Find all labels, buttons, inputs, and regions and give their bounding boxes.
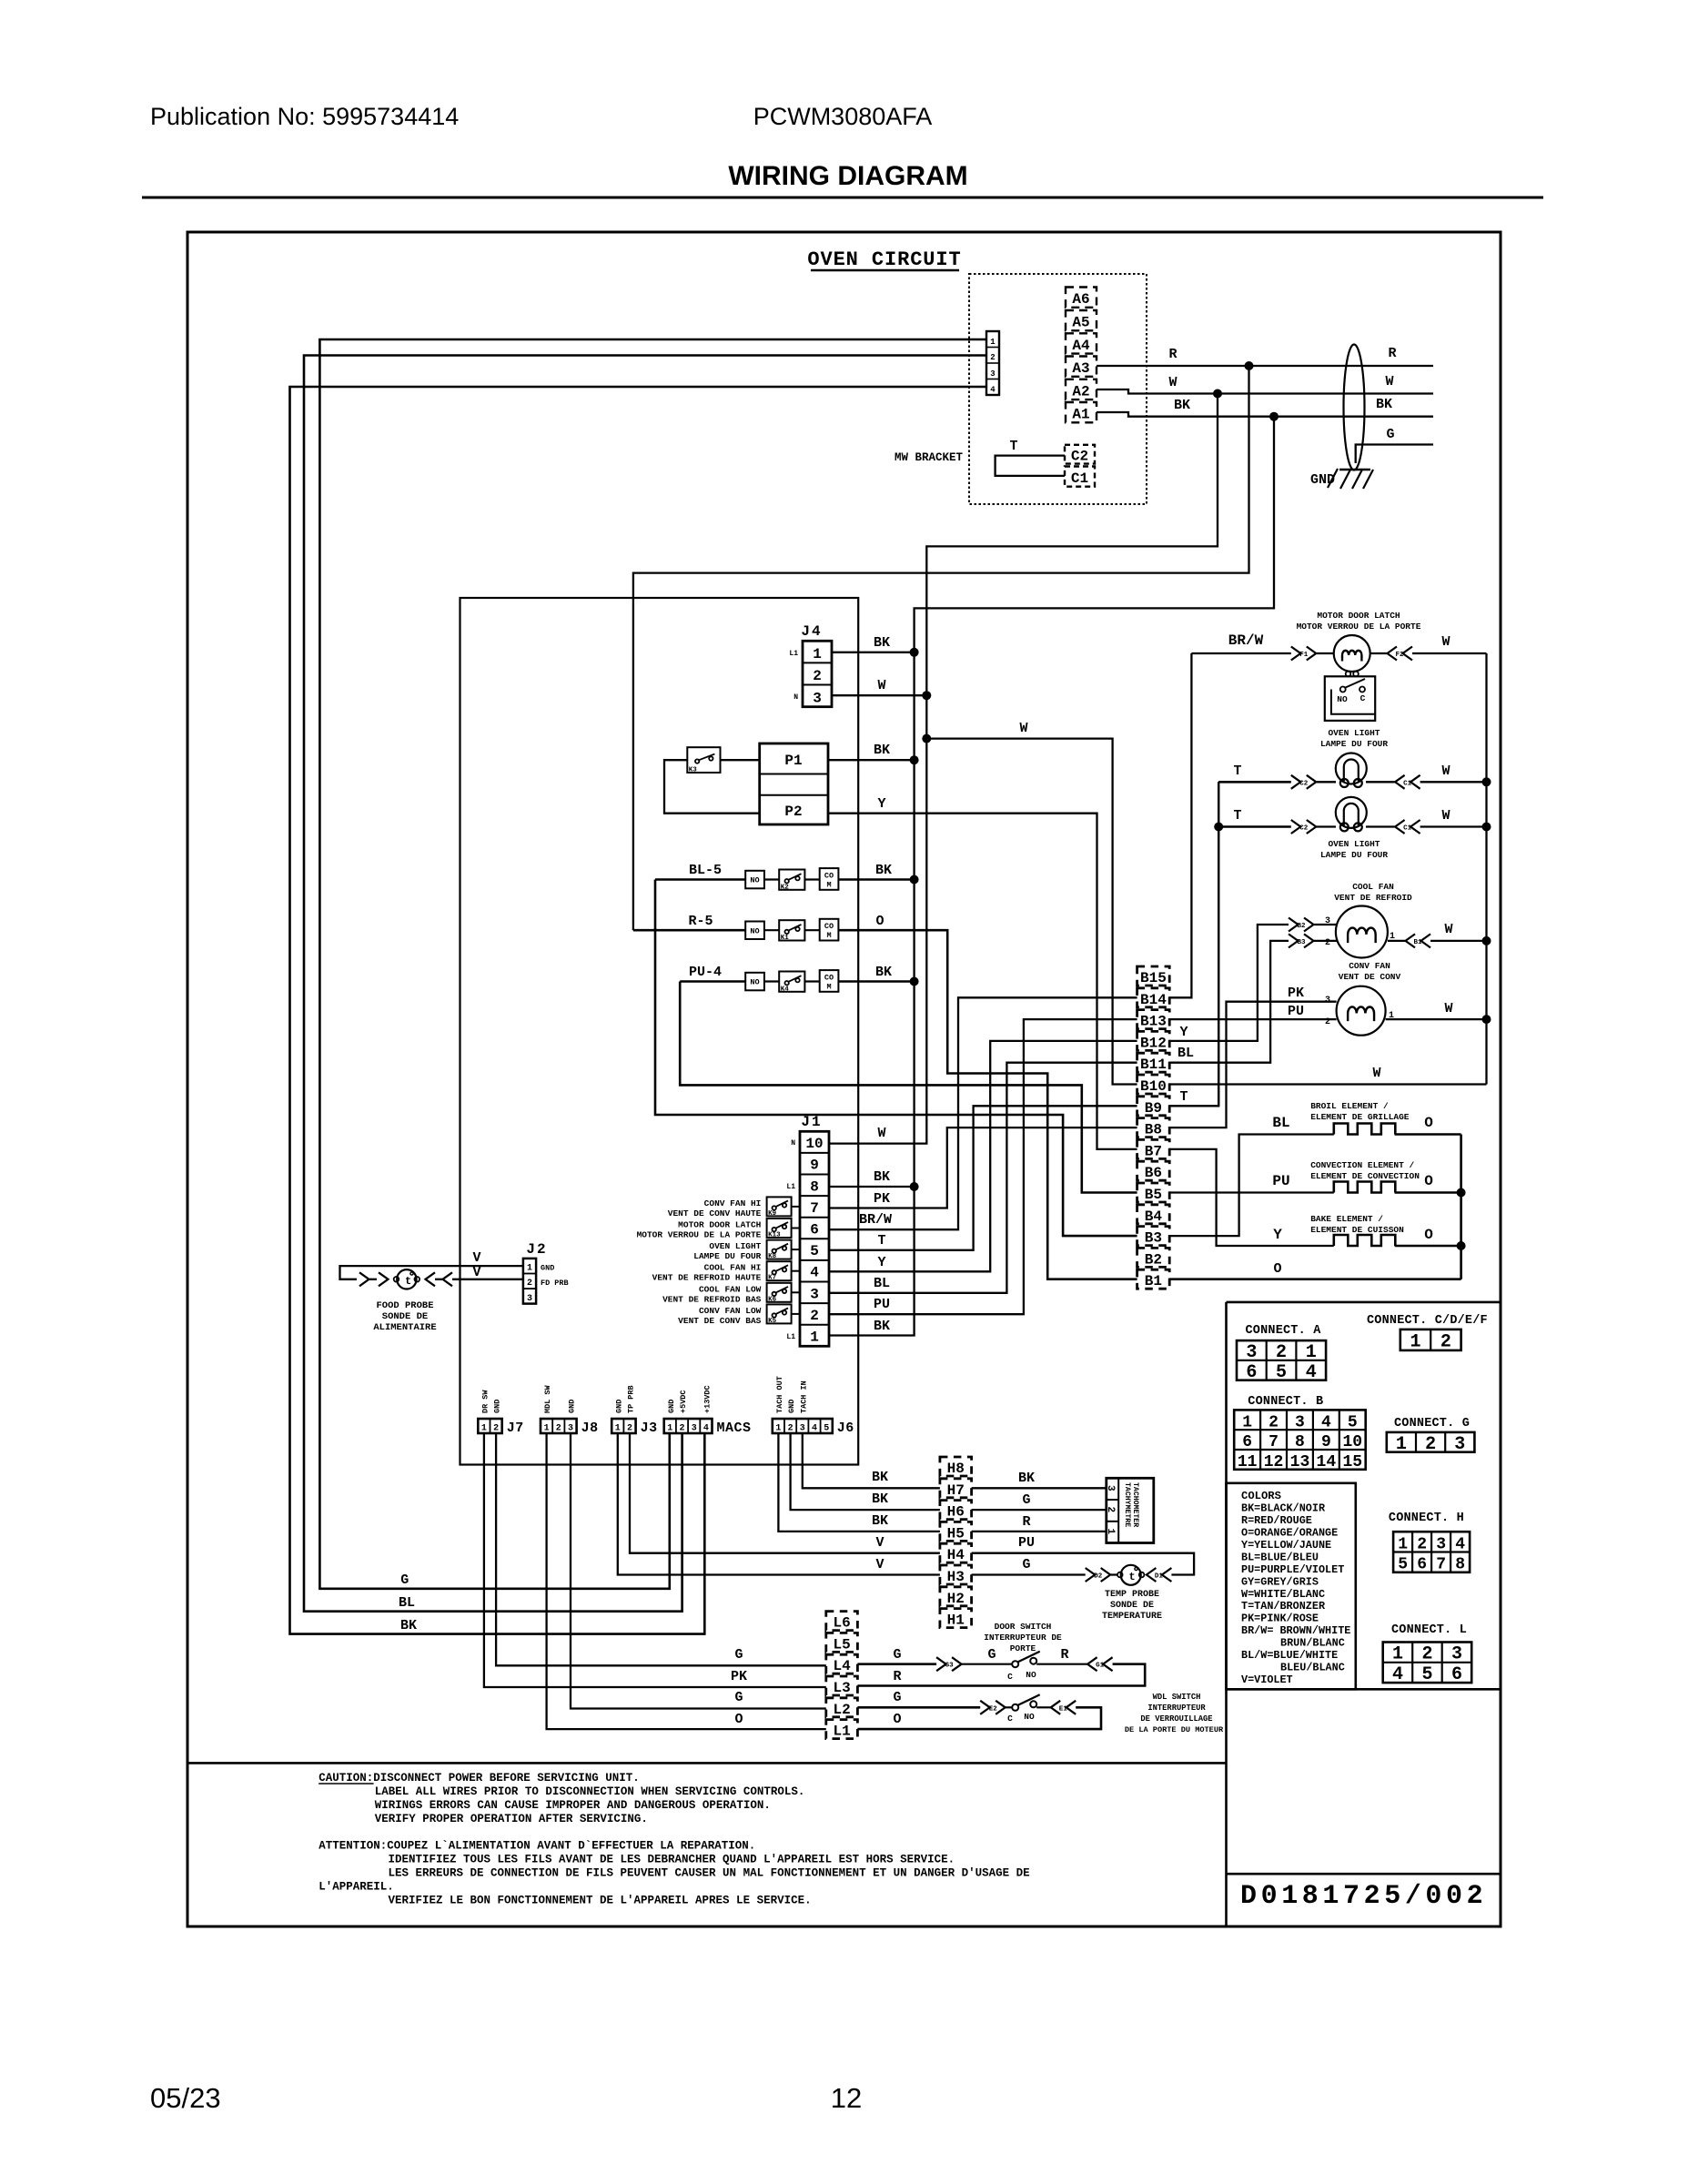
wire J3-2 V to H4 <box>630 1433 940 1553</box>
connector pin L1 <box>826 1720 858 1739</box>
connector pin H6 <box>940 1501 972 1520</box>
connector pin A5 <box>1066 310 1097 330</box>
svg-text:D0181725/002: D0181725/002 <box>1240 1881 1487 1912</box>
legend divider D-number <box>1227 1873 1501 1876</box>
wire V J2-2 to food probe <box>452 1279 523 1280</box>
wire T drop to oven light 2 <box>1218 782 1219 1106</box>
svg-text:M: M <box>826 982 831 991</box>
connector J3 <box>612 1419 635 1433</box>
svg-text:R: R <box>1060 1647 1068 1663</box>
svg-text:WDL SWITCH: WDL SWITCH <box>1153 1693 1201 1702</box>
svg-text:CONNECT. H: CONNECT. H <box>1389 1512 1464 1525</box>
wire K3 loop to P2 <box>664 760 760 814</box>
junction T at oven light 2 <box>1214 823 1223 832</box>
svg-text:VENT DE CONV BAS: VENT DE CONV BAS <box>678 1316 762 1326</box>
connector pin H2 <box>940 1587 972 1606</box>
svg-text:W: W <box>1385 374 1393 389</box>
svg-text:BK: BK <box>875 863 892 878</box>
legend divider colors bottom <box>1227 1688 1501 1691</box>
motor door latch motor <box>1334 635 1370 672</box>
svg-text:B5: B5 <box>1145 1187 1162 1203</box>
wire J6-3 BK to H7 <box>803 1433 940 1488</box>
svg-text:BL: BL <box>1178 1046 1194 1061</box>
connector pin B2 <box>1137 1248 1170 1267</box>
svg-text:1: 1 <box>527 1264 532 1274</box>
svg-text:PU: PU <box>874 1297 890 1312</box>
connector pin H4 <box>940 1543 972 1562</box>
svg-text:H5: H5 <box>947 1525 965 1542</box>
wire loop to L1 <box>857 1707 1101 1729</box>
svg-text:K3: K3 <box>689 767 698 774</box>
svg-text:4: 4 <box>810 1265 819 1281</box>
svg-text:COOL FAN HI: COOL FAN HI <box>704 1263 762 1273</box>
svg-text:BK: BK <box>874 1169 890 1185</box>
svg-text:B10: B10 <box>1140 1078 1167 1095</box>
svg-text:OVEN CIRCUIT: OVEN CIRCUIT <box>807 248 961 271</box>
svg-text:5: 5 <box>1276 1362 1287 1383</box>
connector pin B9 <box>1137 1097 1170 1116</box>
svg-text:B11: B11 <box>1140 1057 1167 1073</box>
svg-text:2: 2 <box>493 1424 499 1434</box>
svg-text:N: N <box>791 1139 795 1148</box>
svg-text:CO: CO <box>824 973 834 982</box>
svg-text:G: G <box>893 1647 901 1663</box>
svg-text:BK: BK <box>874 1319 890 1334</box>
svg-text:B1: B1 <box>1145 1273 1162 1289</box>
motor terminals <box>1346 672 1351 677</box>
wire B11 BL to cool fan pin2 <box>1169 941 1289 1063</box>
switch K8 at J1-5 <box>767 1240 792 1259</box>
svg-text:FOOD PROBE: FOOD PROBE <box>376 1300 433 1311</box>
arrow C2 light1 <box>1291 775 1301 789</box>
svg-text:3: 3 <box>1436 1535 1446 1553</box>
arrow C2 light2 <box>1291 820 1301 834</box>
connector pin A1 <box>1066 402 1097 422</box>
svg-text:J4: J4 <box>801 623 822 640</box>
svg-text:A1: A1 <box>1072 407 1089 423</box>
switch K5 at J1-2 <box>767 1304 792 1323</box>
svg-text:2: 2 <box>627 1424 632 1434</box>
svg-text:DE VERROUILLAGE: DE VERROUILLAGE <box>1140 1714 1212 1724</box>
door latch switch NO C <box>1325 676 1375 721</box>
svg-text:O: O <box>875 914 884 929</box>
svg-text:B12: B12 <box>1140 1035 1167 1051</box>
svg-text:L2: L2 <box>833 1702 850 1718</box>
wire relay K2 output BK <box>838 878 914 881</box>
svg-text:O: O <box>1273 1261 1281 1277</box>
svg-text:SONDE DE: SONDE DE <box>1110 1601 1154 1611</box>
convection element <box>1334 1182 1396 1193</box>
wire P2 Y output to B7 <box>828 814 1137 1149</box>
arrow F1 <box>1291 647 1301 661</box>
svg-text:J7: J7 <box>507 1421 524 1436</box>
svg-text:2: 2 <box>1325 938 1330 948</box>
connector pin A2 <box>1066 379 1097 399</box>
svg-text:FD PRB: FD PRB <box>541 1279 569 1288</box>
svg-text:Y: Y <box>1273 1227 1282 1243</box>
wire G from cable bundle <box>1356 445 1433 464</box>
svg-text:C: C <box>1007 1714 1013 1724</box>
svg-text:5: 5 <box>1398 1556 1408 1574</box>
wire B3 BL to broil element <box>1169 1135 1334 1237</box>
svg-text:2: 2 <box>1421 1644 1432 1665</box>
svg-text:PU: PU <box>1018 1535 1035 1551</box>
arrow B1 <box>1421 934 1431 947</box>
svg-text:11: 11 <box>1238 1453 1258 1471</box>
svg-text:BK: BK <box>872 1491 888 1507</box>
wire PU-4 route to B5 <box>680 982 1137 1193</box>
temp probe sensor <box>1117 1572 1123 1578</box>
bake element <box>1334 1235 1396 1246</box>
svg-text:7: 7 <box>1436 1556 1446 1574</box>
svg-text:L5: L5 <box>833 1636 850 1653</box>
svg-text:TEMPERATURE: TEMPERATURE <box>1102 1612 1162 1622</box>
svg-text:CONNECT. L: CONNECT. L <box>1391 1623 1467 1637</box>
svg-text:J3: J3 <box>641 1421 658 1436</box>
svg-text:BR/W: BR/W <box>1228 632 1264 649</box>
svg-text:10: 10 <box>1342 1433 1362 1451</box>
svg-text:A4: A4 <box>1072 338 1090 354</box>
svg-text:TACH IN: TACH IN <box>799 1380 808 1413</box>
connector MACS <box>664 1419 713 1433</box>
connector pin H1 <box>940 1609 972 1628</box>
junction W oven light 1 <box>1482 777 1491 786</box>
connector pin B3 <box>1137 1227 1170 1246</box>
svg-text:T: T <box>1233 763 1241 779</box>
connector J4 <box>803 641 832 706</box>
svg-text:1: 1 <box>1306 1342 1317 1363</box>
wire T to oven light 1 <box>1218 781 1291 784</box>
svg-text:E1: E1 <box>1059 1705 1068 1713</box>
wire H4 PU to temp probe <box>972 1553 1195 1575</box>
svg-text:2: 2 <box>1417 1535 1427 1553</box>
svg-text:TP PRB: TP PRB <box>627 1385 636 1413</box>
svg-text:T: T <box>1233 808 1241 824</box>
svg-text:PU=PURPLE/VIOLET: PU=PURPLE/VIOLET <box>1241 1563 1344 1576</box>
wire V J2-1 to food probe <box>340 1266 523 1279</box>
svg-text:4: 4 <box>1321 1413 1331 1431</box>
connector pin H8 <box>940 1457 972 1476</box>
svg-text:P2: P2 <box>784 804 802 820</box>
svg-text:Y: Y <box>877 1255 885 1270</box>
wire BK route to BK bus <box>829 417 1274 1336</box>
svg-text:W: W <box>1168 375 1177 390</box>
wire J1-4 Y to B12 <box>829 1041 1137 1271</box>
right W bus vertical <box>1485 653 1487 1085</box>
relay COM terminal <box>820 970 839 992</box>
svg-text:G3: G3 <box>945 1663 955 1670</box>
connector pin B15 <box>1137 966 1170 986</box>
wire J1-7 PK to B8 <box>829 1127 1137 1208</box>
svg-text:2: 2 <box>1425 1434 1436 1455</box>
legend panel border <box>1227 1301 1501 1304</box>
svg-text:1: 1 <box>544 1424 550 1434</box>
svg-text:MOTOR VERROU DE LA PORTE: MOTOR VERROU DE LA PORTE <box>1297 622 1421 632</box>
svg-text:CONNECT. A: CONNECT. A <box>1246 1324 1322 1338</box>
svg-text:BRUN/BLANC: BRUN/BLANC <box>1280 1637 1345 1650</box>
svg-text:4: 4 <box>1306 1362 1317 1383</box>
wire L4 G to door switch <box>857 1663 936 1665</box>
svg-text:H2: H2 <box>947 1591 965 1607</box>
svg-text:COLORS: COLORS <box>1241 1490 1281 1502</box>
wire H3 G to temp probe <box>972 1573 1086 1575</box>
svg-text:B3: B3 <box>1145 1230 1162 1247</box>
svg-text:J6: J6 <box>837 1421 854 1436</box>
svg-text:PORTE: PORTE <box>1010 1643 1036 1653</box>
wire BK from A1 <box>1097 412 1433 417</box>
wire B14 to motor door latch BR/W <box>1169 653 1191 997</box>
svg-text:BK: BK <box>1018 1471 1035 1486</box>
svg-text:H6: H6 <box>947 1504 965 1521</box>
wire R loop to L3 <box>857 1664 1145 1686</box>
svg-text:B4: B4 <box>1145 1208 1163 1225</box>
svg-text:W=WHITE/BLANC: W=WHITE/BLANC <box>1241 1588 1325 1601</box>
svg-text:G: G <box>893 1690 901 1705</box>
wire BR/W to motor F1 <box>1191 652 1290 654</box>
junction BK bus relay K4 <box>910 977 919 986</box>
svg-text:CONNECT. G: CONNECT. G <box>1394 1417 1470 1431</box>
wire B13 PU to conv fan pin2 <box>1169 1018 1336 1020</box>
svg-text:Publication No: 5995734414: Publication No: 5995734414 <box>150 103 459 130</box>
svg-text:2: 2 <box>788 1424 793 1434</box>
arrow E2 <box>980 1701 990 1714</box>
svg-text:3: 3 <box>1325 916 1330 926</box>
svg-text:BK: BK <box>875 965 892 980</box>
svg-text:TEMP PROBE: TEMP PROBE <box>1105 1590 1159 1600</box>
svg-text:O: O <box>893 1712 901 1727</box>
svg-text:V=VIOLET: V=VIOLET <box>1241 1673 1293 1686</box>
svg-text:R: R <box>1168 347 1177 362</box>
junction W bus J4-3 <box>922 691 931 700</box>
arrow B2 <box>1289 918 1299 932</box>
svg-text:BL: BL <box>874 1276 890 1291</box>
svg-text:7: 7 <box>810 1200 819 1217</box>
arrow D2 <box>1086 1568 1096 1582</box>
svg-text:J2: J2 <box>526 1241 547 1258</box>
svg-text:2: 2 <box>990 353 995 362</box>
svg-text:CONNECT. B: CONNECT. B <box>1248 1395 1323 1409</box>
junction W bus <box>1213 389 1222 399</box>
wire W branch to B10 <box>926 739 1137 1085</box>
connector pin L5 <box>826 1633 858 1652</box>
svg-text:5: 5 <box>824 1424 829 1434</box>
svg-text:PCWM3080AFA: PCWM3080AFA <box>753 103 933 130</box>
svg-text:LABEL ALL WIRES PRIOR TO DISCO: LABEL ALL WIRES PRIOR TO DISCONNECTION W… <box>375 1785 805 1798</box>
connector pin C1 <box>1065 467 1095 487</box>
svg-text:K9: K9 <box>768 1210 777 1218</box>
wire L2 G to WDL switch <box>857 1706 980 1709</box>
svg-text:C2: C2 <box>1299 825 1309 833</box>
svg-text:8: 8 <box>1455 1556 1465 1574</box>
svg-text:K1: K1 <box>781 935 790 942</box>
wire BL from strip pin2 to MACS-2 <box>304 356 986 1612</box>
svg-text:W: W <box>1019 721 1027 736</box>
svg-text:OVEN LIGHT: OVEN LIGHT <box>1328 839 1380 849</box>
svg-text:K8: K8 <box>768 1253 777 1260</box>
connector pin A3 <box>1066 357 1097 377</box>
svg-text:2: 2 <box>1269 1413 1279 1431</box>
svg-text:NO: NO <box>750 978 759 987</box>
svg-text:COOL FAN: COOL FAN <box>1352 882 1394 892</box>
title rule <box>142 197 1543 199</box>
connector pin B8 <box>1137 1118 1170 1137</box>
relay switch K1 <box>779 920 804 940</box>
svg-text:W: W <box>1372 1066 1380 1081</box>
svg-text:BL/W=BLUE/WHITE: BL/W=BLUE/WHITE <box>1241 1649 1338 1662</box>
connector pin B7 <box>1137 1139 1170 1158</box>
svg-text:GND: GND <box>493 1400 502 1413</box>
junction convection return <box>1457 1188 1466 1198</box>
svg-text:1: 1 <box>615 1424 621 1434</box>
svg-text:H4: H4 <box>947 1547 965 1563</box>
svg-text:2: 2 <box>1105 1507 1116 1513</box>
svg-text:ALIMENTAIRE: ALIMENTAIRE <box>373 1322 436 1333</box>
control board outline <box>460 598 859 1465</box>
svg-text:3: 3 <box>692 1424 697 1434</box>
svg-text:3: 3 <box>800 1424 805 1434</box>
svg-text:F2: F2 <box>1395 652 1404 659</box>
switch K7 at J1-4 <box>767 1261 792 1280</box>
svg-text:1: 1 <box>1105 1529 1116 1535</box>
svg-text:1: 1 <box>1410 1331 1420 1352</box>
svg-text:PU: PU <box>1272 1173 1289 1189</box>
svg-text:ELEMENT DE GRILLAGE: ELEMENT DE GRILLAGE <box>1310 1112 1410 1122</box>
svg-text:GND: GND <box>568 1400 577 1413</box>
svg-text:8: 8 <box>810 1178 819 1195</box>
svg-text:BK: BK <box>1376 397 1392 412</box>
legend COLORS box <box>1227 1483 1356 1690</box>
wire J7-2 G to L4 <box>496 1433 826 1665</box>
svg-text:O: O <box>1424 1173 1433 1189</box>
svg-text:GND: GND <box>541 1264 554 1273</box>
svg-text:TACHYMETRE: TACHYMETRE <box>1123 1482 1131 1527</box>
relay switch K2 <box>779 870 804 890</box>
svg-text:R=RED/ROUGE: R=RED/ROUGE <box>1241 1514 1312 1527</box>
svg-text:2: 2 <box>679 1424 684 1434</box>
svg-text:M: M <box>826 931 831 940</box>
svg-text:LAMPE DU FOUR: LAMPE DU FOUR <box>693 1251 761 1261</box>
svg-text:L1: L1 <box>786 1183 795 1191</box>
svg-text:1: 1 <box>1398 1535 1408 1553</box>
switch K9 at J1-7 <box>767 1197 792 1216</box>
svg-text:5: 5 <box>810 1243 819 1259</box>
svg-text:2: 2 <box>1325 1017 1330 1027</box>
svg-text:COOL FAN LOW: COOL FAN LOW <box>699 1284 762 1294</box>
svg-text:MDL SW: MDL SW <box>543 1384 552 1413</box>
svg-text:O: O <box>1424 1115 1433 1131</box>
svg-text:MOTOR VERROU DE LA PORTE: MOTOR VERROU DE LA PORTE <box>637 1230 762 1240</box>
wire R from A3 <box>1097 365 1433 367</box>
svg-text:T=TAN/BRONZER: T=TAN/BRONZER <box>1241 1600 1326 1613</box>
svg-text:E2: E2 <box>989 1705 998 1713</box>
svg-text:NO: NO <box>1024 1712 1035 1722</box>
svg-text:3: 3 <box>810 1286 819 1302</box>
connector pin C2 <box>1065 445 1095 464</box>
svg-text:14: 14 <box>1317 1453 1337 1471</box>
tachometer <box>1107 1478 1154 1542</box>
switch K3 <box>687 747 720 773</box>
wire relay K4 output BK <box>838 980 914 983</box>
svg-text:VENT DE REFROID: VENT DE REFROID <box>1334 893 1412 903</box>
wire J1-6 BR/W to B14 <box>829 997 1137 1229</box>
svg-text:PK=PINK/ROSE: PK=PINK/ROSE <box>1241 1613 1319 1625</box>
svg-text:BAKE ELEMENT /: BAKE ELEMENT / <box>1310 1214 1383 1224</box>
connector pin B6 <box>1137 1161 1170 1180</box>
svg-text:CAUTION:DISCONNECT POWER BEFOR: CAUTION:DISCONNECT POWER BEFORE SERVICIN… <box>318 1772 640 1785</box>
svg-text:8: 8 <box>1295 1433 1305 1451</box>
svg-text:6: 6 <box>1451 1664 1462 1685</box>
svg-text:B9: B9 <box>1145 1100 1162 1117</box>
arrow E1 <box>1066 1701 1076 1714</box>
svg-text:L3: L3 <box>833 1680 850 1696</box>
wire W route to W bus <box>829 394 1218 1144</box>
svg-text:CONV FAN: CONV FAN <box>1349 961 1390 971</box>
cable bundle oval <box>1344 345 1365 470</box>
svg-text:4: 4 <box>703 1424 709 1434</box>
svg-text:G: G <box>1022 1557 1030 1572</box>
switch K6 at J1-3 <box>767 1283 792 1302</box>
svg-text:3: 3 <box>1105 1485 1116 1491</box>
svg-text:G: G <box>734 1647 743 1663</box>
wire cool fan pin1 W <box>1388 940 1405 942</box>
arrow B3 <box>1289 934 1299 947</box>
junction bake return <box>1457 1241 1466 1250</box>
svg-text:B7: B7 <box>1145 1143 1162 1159</box>
relay NO terminal <box>745 973 764 991</box>
relay COM terminal <box>820 919 839 941</box>
svg-text:G: G <box>400 1572 409 1588</box>
oven light 2 bulb <box>1336 797 1367 828</box>
svg-text:PU: PU <box>1288 1004 1304 1019</box>
svg-text:G: G <box>734 1690 743 1705</box>
wire H6 G to tachometer pin2 <box>972 1509 1107 1511</box>
svg-text:Y: Y <box>1179 1025 1188 1040</box>
svg-text:B6: B6 <box>1145 1165 1162 1181</box>
svg-text:t: t <box>1129 1571 1136 1583</box>
wire W from motor F2 <box>1412 652 1487 654</box>
food probe sensor <box>359 1272 369 1286</box>
svg-text:L4: L4 <box>833 1658 851 1674</box>
arrow G1 <box>1103 1657 1113 1671</box>
svg-text:K6: K6 <box>768 1296 777 1303</box>
svg-text:CONVECTION ELEMENT /: CONVECTION ELEMENT / <box>1310 1160 1414 1170</box>
svg-text:BK: BK <box>872 1470 888 1485</box>
svg-text:PK: PK <box>731 1669 747 1684</box>
svg-text:1: 1 <box>667 1424 672 1434</box>
svg-text:BR/W= BROWN/WHITE: BR/W= BROWN/WHITE <box>1241 1624 1350 1637</box>
svg-text:VENT DE REFROID BAS: VENT DE REFROID BAS <box>662 1294 762 1304</box>
svg-text:B8: B8 <box>1145 1122 1162 1138</box>
svg-text:NO: NO <box>1026 1670 1036 1680</box>
svg-text:K5: K5 <box>768 1318 777 1325</box>
svg-text:V: V <box>875 1557 884 1572</box>
svg-text:3: 3 <box>1246 1342 1257 1363</box>
svg-text:2: 2 <box>810 1308 819 1324</box>
svg-text:9: 9 <box>810 1158 819 1174</box>
wire relay K1 input R-5 <box>633 929 745 932</box>
conv fan motor <box>1337 986 1386 1036</box>
svg-text:A3: A3 <box>1072 360 1089 377</box>
svg-text:SONDE DE: SONDE DE <box>382 1311 428 1322</box>
svg-text:R: R <box>1022 1514 1030 1530</box>
svg-text:3: 3 <box>1451 1644 1462 1665</box>
wire J1-3 BL to B11 <box>829 1063 1137 1293</box>
svg-text:V: V <box>472 1250 480 1266</box>
wire G from strip pin1 to MACS-1 <box>319 339 986 1589</box>
connector J8 <box>541 1419 577 1433</box>
svg-text:3: 3 <box>1454 1434 1465 1455</box>
svg-text:1: 1 <box>810 1330 819 1346</box>
